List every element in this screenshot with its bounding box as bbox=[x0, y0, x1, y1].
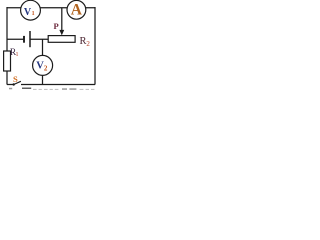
wire middle (battery to rheostat R2 left terminal) bbox=[30, 38, 48, 40]
watermark row (faint gray marks along bottom) bbox=[9, 88, 94, 90]
wire left (top-left corner down to bottom-left corner) bbox=[6, 7, 8, 85]
wire from voltmeter V2 bottom to bottom rail bbox=[42, 75, 44, 85]
svg-text:1: 1 bbox=[16, 52, 19, 58]
wire right (top-right corner down to bottom-right corner) bbox=[94, 7, 96, 85]
svg-text:2: 2 bbox=[86, 40, 90, 48]
switch S hinge dot bbox=[13, 83, 15, 85]
slider wire from top rail down to rheostat bbox=[61, 8, 63, 31]
svg-text:S: S bbox=[13, 74, 18, 84]
svg-text:1: 1 bbox=[32, 11, 35, 17]
slider arrowhead onto rheostat R2 bbox=[59, 30, 64, 36]
voltmeter V1 circle bbox=[21, 0, 41, 20]
wire middle (left rail to battery) bbox=[7, 38, 24, 40]
wire bottom right segment (switch to bottom-right corner) bbox=[21, 84, 95, 86]
svg-text:2: 2 bbox=[44, 64, 48, 72]
wire bottom left segment (corner to switch) bbox=[7, 84, 14, 86]
svg-text:P: P bbox=[54, 21, 59, 31]
battery cell (long positive plate, right) bbox=[29, 31, 31, 47]
svg-text:A: A bbox=[71, 1, 83, 18]
wire top (battery+ loop, from top-left corner to top-right corner) bbox=[7, 7, 95, 9]
rheostat R2 body (resistor box) bbox=[48, 36, 75, 43]
resistor R1 body (vertical box on left rail) bbox=[4, 51, 11, 71]
ammeter A circle bbox=[67, 0, 86, 19]
node branch wire down to voltmeter V2 top bbox=[42, 39, 44, 56]
battery cell (short negative plate, left) bbox=[23, 36, 25, 43]
voltmeter V2 circle bbox=[33, 55, 53, 75]
switch S blade (open, angled up-right) bbox=[14, 81, 21, 84]
